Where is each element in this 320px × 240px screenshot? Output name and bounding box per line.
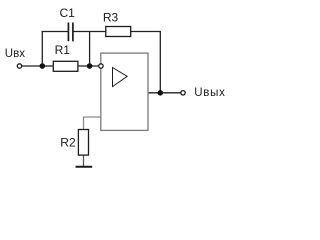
resistor R3: [106, 27, 131, 37]
svg-text:Uвх: Uвх: [5, 48, 25, 60]
op-amp U1 triangle: [113, 68, 128, 87]
svg-text:R2: R2: [60, 135, 76, 149]
wire top branch down to node B: [89, 32, 91, 67]
output terminal: [181, 91, 185, 95]
wire op-amp output to terminal: [148, 92, 181, 94]
op-amp inverting input circle: [99, 64, 103, 68]
wire R2 up to op-amp non-inverting input: [84, 117, 101, 130]
wire node A to R1: [42, 65, 53, 67]
ground: [76, 166, 93, 168]
svg-text:C1: C1: [60, 6, 76, 20]
svg-text:R3: R3: [103, 11, 119, 25]
wire top branch to C1 left plate: [42, 31, 69, 33]
resistor R2: [78, 130, 88, 156]
node B junction dot: [87, 63, 93, 69]
wire R3 down to output node: [159, 31, 161, 93]
wire C1 right plate to R3: [73, 31, 106, 33]
input terminal: [17, 64, 21, 68]
svg-text:R1: R1: [55, 43, 71, 57]
node A junction dot: [40, 63, 46, 69]
wire node A up to top branch: [41, 31, 43, 66]
capacitor C1: [68, 23, 73, 42]
output node junction dot: [158, 90, 164, 96]
op-amp U1 body: [101, 53, 148, 130]
resistor R1: [53, 61, 78, 71]
wire input to node A: [22, 65, 43, 67]
svg-text:Uвых: Uвых: [194, 87, 225, 99]
wire R1 to node B and op-amp inverting input: [78, 65, 98, 67]
wire R3 right lead: [131, 31, 161, 33]
wire R2 down to ground: [83, 155, 85, 166]
